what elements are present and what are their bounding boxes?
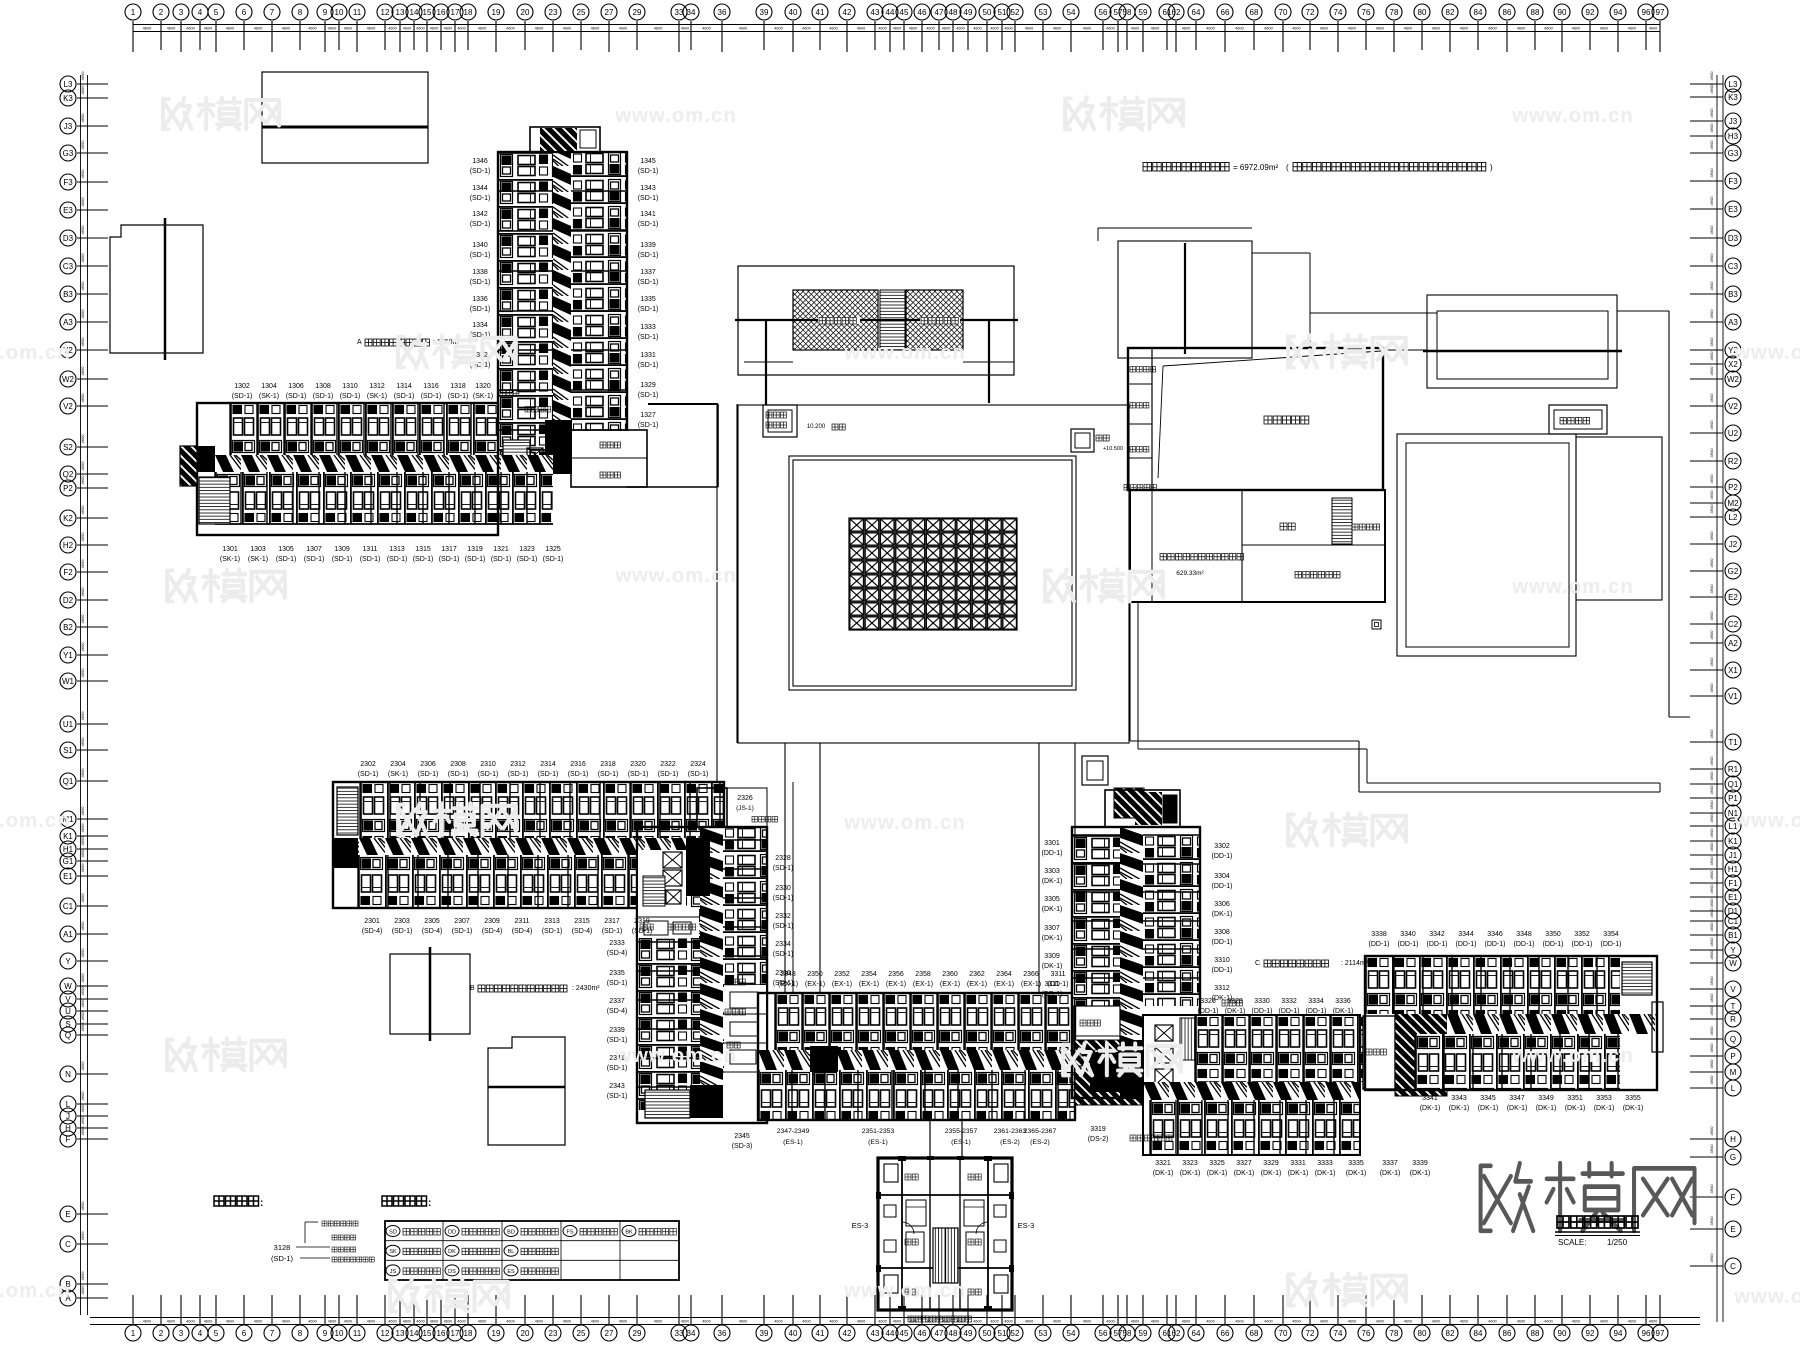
svg-text:2326: 2326 xyxy=(737,795,753,802)
svg-text:44: 44 xyxy=(886,1329,895,1338)
svg-text:3329: 3329 xyxy=(1263,1160,1279,1167)
svg-text:R2: R2 xyxy=(1728,457,1739,466)
svg-text:90: 90 xyxy=(1558,8,1567,17)
central bottom slab room labels 2347-2367 xyxy=(777,971,1069,1146)
svg-text:9: 9 xyxy=(323,1329,328,1338)
svg-text:3342: 3342 xyxy=(1429,931,1445,938)
svg-text:Q1: Q1 xyxy=(1728,780,1739,789)
svg-text:2334: 2334 xyxy=(775,941,791,948)
svg-text:2358: 2358 xyxy=(915,971,931,978)
svg-text:(SD-1): (SD-1) xyxy=(478,771,499,778)
svg-text:2356: 2356 xyxy=(888,971,904,978)
svg-text:92: 92 xyxy=(1586,1329,1595,1338)
svg-text:A2: A2 xyxy=(1728,639,1738,648)
svg-text:B: B xyxy=(470,985,475,992)
svg-text:(DK-1): (DK-1) xyxy=(1234,1170,1255,1177)
svg-text:H: H xyxy=(1730,1135,1736,1144)
svg-text:2362: 2362 xyxy=(969,971,985,978)
wing C room number labels 3301-3355 and area note xyxy=(1042,840,1644,1177)
svg-text:10.200: 10.200 xyxy=(807,424,826,430)
svg-text:62: 62 xyxy=(1172,8,1181,17)
svg-text:4600: 4600 xyxy=(1709,922,1714,932)
svg-text:3319: 3319 xyxy=(1090,1126,1106,1133)
svg-text:4600: 4600 xyxy=(857,1320,865,1324)
svg-text:4600: 4600 xyxy=(1709,908,1714,918)
svg-text:84: 84 xyxy=(1474,1329,1483,1338)
svg-text:1335: 1335 xyxy=(640,296,656,303)
svg-text:(SD-1): (SD-1) xyxy=(465,556,486,563)
svg-text:www.om.cn: www.om.cn xyxy=(1733,1286,1800,1308)
svg-text:(SD-4): (SD-4) xyxy=(512,928,533,935)
svg-text:(ES-1): (ES-1) xyxy=(868,1139,888,1146)
svg-text:S1: S1 xyxy=(63,746,73,755)
svg-text:1331: 1331 xyxy=(640,352,656,359)
svg-text:4600: 4600 xyxy=(1709,1144,1714,1154)
svg-text:2: 2 xyxy=(159,1329,164,1338)
svg-text:(SD-4): (SD-4) xyxy=(482,928,503,935)
svg-text:68: 68 xyxy=(1250,1329,1259,1338)
svg-text:2305: 2305 xyxy=(424,918,440,925)
svg-text:1309: 1309 xyxy=(334,546,350,553)
svg-text:4600: 4600 xyxy=(1709,1216,1714,1226)
svg-text:4600: 4600 xyxy=(1106,27,1114,31)
svg-text:4600: 4600 xyxy=(80,225,85,235)
svg-text:(SD-1): (SD-1) xyxy=(638,392,659,399)
svg-text:D3: D3 xyxy=(1728,234,1739,243)
detail boxes: four empty reference rectangles left side xyxy=(110,72,565,1145)
svg-text:4600: 4600 xyxy=(1709,611,1714,621)
svg-text:4600: 4600 xyxy=(80,1011,85,1021)
svg-text:Y1: Y1 xyxy=(63,651,73,660)
svg-text:59: 59 xyxy=(1139,8,1148,17)
svg-text:1: 1 xyxy=(131,8,136,17)
svg-text:4600: 4600 xyxy=(80,986,85,996)
svg-text:4600: 4600 xyxy=(80,948,85,958)
svg-text:(SD-1): (SD-1) xyxy=(568,771,589,778)
svg-text:97: 97 xyxy=(1656,1329,1665,1338)
svg-text:(SD-1): (SD-1) xyxy=(439,556,460,563)
svg-text:2330: 2330 xyxy=(775,885,791,892)
svg-text:4600: 4600 xyxy=(1131,1320,1139,1324)
svg-text:13: 13 xyxy=(396,1329,405,1338)
svg-text:1311: 1311 xyxy=(362,546,377,553)
svg-text:74: 74 xyxy=(1334,8,1343,17)
svg-text:3: 3 xyxy=(179,1329,184,1338)
svg-text:(SD-4): (SD-4) xyxy=(607,1008,628,1015)
svg-text:(DD-1): (DD-1) xyxy=(1212,939,1233,946)
svg-text:(DK-1): (DK-1) xyxy=(1507,1105,1528,1112)
svg-text:(SD-1): (SD-1) xyxy=(628,771,649,778)
svg-text:4600: 4600 xyxy=(829,1320,837,1324)
svg-text:4600: 4600 xyxy=(909,27,917,31)
svg-text:44: 44 xyxy=(886,8,895,17)
svg-text:2352: 2352 xyxy=(834,971,850,978)
svg-text:H3: H3 xyxy=(1728,132,1739,141)
svg-text:(SD-1): (SD-1) xyxy=(598,771,619,778)
svg-text:2311: 2311 xyxy=(514,918,529,925)
svg-text:2312: 2312 xyxy=(510,761,526,768)
svg-text:4600: 4600 xyxy=(990,1320,998,1324)
svg-text:94: 94 xyxy=(1614,1329,1623,1338)
svg-text:80: 80 xyxy=(1418,8,1427,17)
svg-text:64: 64 xyxy=(1192,8,1201,17)
svg-text:4600: 4600 xyxy=(80,1091,85,1101)
svg-text:56: 56 xyxy=(1099,1329,1108,1338)
svg-text:4600: 4600 xyxy=(1709,630,1714,640)
svg-text:4600: 4600 xyxy=(774,1320,782,1324)
svg-text:4600: 4600 xyxy=(226,1320,234,1324)
svg-text:SK: SK xyxy=(389,1249,397,1255)
svg-text:78: 78 xyxy=(1390,1329,1399,1338)
svg-text:4600: 4600 xyxy=(956,27,964,31)
svg-text:4600: 4600 xyxy=(1544,27,1552,31)
svg-text:4600: 4600 xyxy=(80,532,85,542)
svg-text:P2: P2 xyxy=(63,484,73,493)
svg-text:4600: 4600 xyxy=(80,1231,85,1241)
svg-text:4600: 4600 xyxy=(1709,393,1714,403)
svg-text:4600: 4600 xyxy=(1709,813,1714,823)
svg-text:4600: 4600 xyxy=(457,27,465,31)
svg-text:4600: 4600 xyxy=(1709,337,1714,347)
svg-text:4600: 4600 xyxy=(80,1126,85,1136)
svg-text:4600: 4600 xyxy=(702,1320,710,1324)
svg-text:3309: 3309 xyxy=(1044,953,1060,960)
svg-text:4600: 4600 xyxy=(80,169,85,179)
svg-text:(DD-1): (DD-1) xyxy=(1306,1008,1327,1015)
svg-text:6: 6 xyxy=(242,8,247,17)
svg-text:F: F xyxy=(66,1135,71,1144)
svg-text:Q2: Q2 xyxy=(63,470,74,479)
svg-text:= 6972.09m²: = 6972.09m² xyxy=(1233,163,1278,172)
svg-text:4600: 4600 xyxy=(1649,27,1657,31)
svg-text:4600: 4600 xyxy=(942,27,950,31)
svg-text:www.om.cn: www.om.cn xyxy=(614,565,737,587)
svg-text:ES-3: ES-3 xyxy=(1018,1221,1035,1230)
svg-text:(SD-1): (SD-1) xyxy=(638,279,659,286)
svg-text:Q1: Q1 xyxy=(63,777,74,786)
svg-text:(SD-1): (SD-1) xyxy=(542,928,563,935)
svg-text:29: 29 xyxy=(633,1329,642,1338)
svg-text:43: 43 xyxy=(871,1329,880,1338)
svg-text:25: 25 xyxy=(577,1329,586,1338)
svg-text:Y: Y xyxy=(1730,946,1736,955)
svg-text:DK: DK xyxy=(448,1249,456,1255)
svg-text:4600: 4600 xyxy=(1709,1059,1714,1069)
svg-text:4600: 4600 xyxy=(681,27,689,31)
svg-text::: : xyxy=(260,1198,263,1209)
svg-text:4600: 4600 xyxy=(478,1320,486,1324)
svg-text:www.om.cn: www.om.cn xyxy=(0,810,71,832)
svg-text:4600: 4600 xyxy=(973,1320,981,1324)
svg-text:F3: F3 xyxy=(1728,177,1738,186)
svg-text:Y: Y xyxy=(65,957,71,966)
svg-text:58: 58 xyxy=(1123,8,1132,17)
svg-text:B3: B3 xyxy=(63,290,73,299)
svg-text:(DK-1): (DK-1) xyxy=(1261,1170,1282,1177)
svg-text:4600: 4600 xyxy=(1709,309,1714,319)
svg-text:(SD-1): (SD-1) xyxy=(394,393,415,400)
svg-text:A3: A3 xyxy=(1728,318,1738,327)
svg-text:4600: 4600 xyxy=(430,1320,438,1324)
svg-text:2301: 2301 xyxy=(364,918,380,925)
svg-text:(SD-1): (SD-1) xyxy=(638,306,659,313)
svg-text:39: 39 xyxy=(760,8,769,17)
svg-text:1346: 1346 xyxy=(472,158,488,165)
svg-text:(DD-1): (DD-1) xyxy=(1485,941,1506,948)
svg-text:45: 45 xyxy=(900,1329,909,1338)
svg-text:4600: 4600 xyxy=(1709,196,1714,206)
svg-text:www.om.cn: www.om.cn xyxy=(843,342,966,364)
svg-text:4600: 4600 xyxy=(143,27,151,31)
svg-text:(SD-1): (SD-1) xyxy=(470,252,491,259)
svg-text:4600: 4600 xyxy=(1004,1320,1012,1324)
svg-text:M: M xyxy=(1730,1068,1737,1077)
svg-text:11: 11 xyxy=(353,8,362,17)
svg-text:4600: 4600 xyxy=(254,1320,262,1324)
svg-text:48: 48 xyxy=(949,1329,958,1338)
svg-text:3308: 3308 xyxy=(1214,929,1230,936)
svg-text:M2: M2 xyxy=(1727,499,1739,508)
svg-text:3333: 3333 xyxy=(1317,1160,1333,1167)
svg-text:B1: B1 xyxy=(1728,931,1738,940)
svg-text:7: 7 xyxy=(270,8,275,17)
svg-text:1344: 1344 xyxy=(472,185,488,192)
svg-text:C1: C1 xyxy=(1728,917,1739,926)
svg-text:4600: 4600 xyxy=(1709,140,1714,150)
svg-text:4600: 4600 xyxy=(893,27,901,31)
svg-text:3330: 3330 xyxy=(1254,998,1270,1005)
svg-text:3337: 3337 xyxy=(1382,1160,1398,1167)
svg-text:(SD-1): (SD-1) xyxy=(448,771,469,778)
svg-text:4600: 4600 xyxy=(1432,1320,1440,1324)
svg-text:1319: 1319 xyxy=(467,546,483,553)
svg-text:4600: 4600 xyxy=(80,893,85,903)
svg-text:P1: P1 xyxy=(1728,794,1738,803)
svg-text:4600: 4600 xyxy=(416,1320,424,1324)
svg-text:4600: 4600 xyxy=(416,27,424,31)
svg-text:2355-2357: 2355-2357 xyxy=(945,1128,978,1135)
svg-text:1314: 1314 xyxy=(396,383,412,390)
svg-text:4600: 4600 xyxy=(1488,27,1496,31)
svg-text:4600: 4600 xyxy=(1151,27,1159,31)
svg-text:3311: 3311 xyxy=(1050,971,1065,978)
svg-text:www.om.cn: www.om.cn xyxy=(0,342,71,364)
svg-text:(SD-1): (SD-1) xyxy=(638,334,659,341)
svg-text:4600: 4600 xyxy=(591,1320,599,1324)
svg-text:4600: 4600 xyxy=(1709,828,1714,838)
svg-text:(SD-1): (SD-1) xyxy=(470,306,491,313)
svg-text:(DK-1): (DK-1) xyxy=(1153,1170,1174,1177)
svg-text:3323: 3323 xyxy=(1182,1160,1198,1167)
svg-text:J3: J3 xyxy=(64,122,73,131)
svg-text:4600: 4600 xyxy=(80,863,85,873)
svg-text:4600: 4600 xyxy=(1709,474,1714,484)
svg-text:3349: 3349 xyxy=(1538,1095,1554,1102)
svg-text:3340: 3340 xyxy=(1400,931,1416,938)
svg-text:2339: 2339 xyxy=(609,1027,625,1034)
svg-text:2324: 2324 xyxy=(690,761,706,768)
svg-text:(SD-1): (SD-1) xyxy=(607,1093,628,1100)
svg-text:2: 2 xyxy=(159,8,164,17)
svg-text:4600: 4600 xyxy=(1235,1320,1243,1324)
svg-text:www.om.cn: www.om.cn xyxy=(843,1280,966,1302)
svg-text:3335: 3335 xyxy=(1348,1160,1364,1167)
svg-text:V2: V2 xyxy=(63,402,73,411)
svg-text:: 2430m²: : 2430m² xyxy=(572,985,600,992)
svg-text:K3: K3 xyxy=(63,94,73,103)
svg-text:15: 15 xyxy=(423,1329,432,1338)
svg-text:www.om.cn: www.om.cn xyxy=(614,105,737,127)
svg-text:(SD-1): (SD-1) xyxy=(638,221,659,228)
svg-text:4600: 4600 xyxy=(654,1320,662,1324)
svg-text:82: 82 xyxy=(1446,8,1455,17)
svg-text:(SD-1): (SD-1) xyxy=(773,865,794,872)
svg-text:(SD-1): (SD-1) xyxy=(543,556,564,563)
svg-text:4600: 4600 xyxy=(802,1320,810,1324)
svg-text:(SD-1): (SD-1) xyxy=(421,393,442,400)
annotation: total floor area 6972.09 sqm note xyxy=(1143,163,1493,173)
svg-text:(DK-1): (DK-1) xyxy=(1333,1008,1354,1015)
svg-text:3327: 3327 xyxy=(1236,1160,1252,1167)
svg-text:(SD-1): (SD-1) xyxy=(340,393,361,400)
svg-text:4600: 4600 xyxy=(878,27,886,31)
svg-text:4600: 4600 xyxy=(167,1320,175,1324)
svg-text:4600: 4600 xyxy=(1709,937,1714,947)
svg-text:4600: 4600 xyxy=(774,27,782,31)
svg-text:(SD-1): (SD-1) xyxy=(304,556,325,563)
svg-text:4600: 4600 xyxy=(1709,504,1714,514)
svg-text:4600: 4600 xyxy=(1600,27,1608,31)
svg-text:(: ( xyxy=(1286,163,1289,172)
svg-text:29: 29 xyxy=(633,8,642,17)
svg-text:www.om.cn: www.om.cn xyxy=(1511,105,1634,127)
svg-text:E3: E3 xyxy=(63,206,73,215)
svg-text:4600: 4600 xyxy=(80,309,85,319)
svg-text:4600: 4600 xyxy=(80,1201,85,1211)
svg-text:4600: 4600 xyxy=(926,27,934,31)
svg-text:(EX-1): (EX-1) xyxy=(967,981,987,988)
svg-text:4600: 4600 xyxy=(1709,1184,1714,1194)
svg-text:4600: 4600 xyxy=(619,27,627,31)
svg-text:(SK-1): (SK-1) xyxy=(248,556,268,563)
svg-text:629.33m²: 629.33m² xyxy=(1176,570,1204,577)
svg-text:(SD-4): (SD-4) xyxy=(607,950,628,957)
svg-text:www.om.cn: www.om.cn xyxy=(1733,342,1800,364)
svg-text:3355: 3355 xyxy=(1625,1095,1641,1102)
svg-text:4600: 4600 xyxy=(1709,351,1714,361)
svg-text:88: 88 xyxy=(1531,1329,1540,1338)
svg-text:14: 14 xyxy=(410,8,419,17)
svg-text:(SD-1): (SD-1) xyxy=(508,771,529,778)
svg-text:4: 4 xyxy=(198,8,203,17)
svg-text:U: U xyxy=(65,1007,71,1016)
svg-text:1301: 1301 xyxy=(222,546,238,553)
svg-text:4600: 4600 xyxy=(80,140,85,150)
svg-text:4600: 4600 xyxy=(563,27,571,31)
svg-text:1315: 1315 xyxy=(415,546,431,553)
svg-text:(SD-4): (SD-4) xyxy=(422,928,443,935)
svg-text:BK: BK xyxy=(625,1230,633,1236)
svg-text:1307: 1307 xyxy=(306,546,322,553)
svg-text:P: P xyxy=(1730,1052,1735,1061)
svg-text:4600: 4600 xyxy=(1709,281,1714,291)
svg-text:(EX-1): (EX-1) xyxy=(913,981,933,988)
svg-text:64: 64 xyxy=(1192,1329,1201,1338)
svg-text:23: 23 xyxy=(549,1329,558,1338)
svg-text:4600: 4600 xyxy=(1376,1320,1384,1324)
svg-text:4600: 4600 xyxy=(282,1320,290,1324)
svg-text:4600: 4600 xyxy=(1709,71,1714,81)
svg-text:3303: 3303 xyxy=(1044,868,1060,875)
svg-text:(SD-1): (SD-1) xyxy=(452,928,473,935)
svg-text:C2: C2 xyxy=(1728,620,1739,629)
svg-text:K1: K1 xyxy=(1728,837,1738,846)
svg-text:4600: 4600 xyxy=(344,27,352,31)
svg-text:H1: H1 xyxy=(1728,865,1739,874)
svg-text:5: 5 xyxy=(214,8,219,17)
svg-text:2319: 2319 xyxy=(634,918,650,925)
svg-text:4600: 4600 xyxy=(204,1320,212,1324)
svg-text:1325: 1325 xyxy=(545,546,561,553)
wing C: vertical slab, central-right slab and far-right slab with corridors, stairs, cores xyxy=(1072,790,1663,1155)
svg-text:52: 52 xyxy=(1011,1329,1020,1338)
svg-text:49: 49 xyxy=(964,1329,973,1338)
svg-text:DS: DS xyxy=(448,1269,456,1275)
svg-text:4600: 4600 xyxy=(80,973,85,983)
svg-text:4600: 4600 xyxy=(80,1285,85,1295)
svg-text:1333: 1333 xyxy=(640,324,656,331)
svg-text:FS: FS xyxy=(566,1230,573,1236)
svg-text:1336: 1336 xyxy=(472,296,488,303)
svg-text:70: 70 xyxy=(1279,8,1288,17)
svg-text:(SD-1): (SD-1) xyxy=(448,393,469,400)
svg-text:4600: 4600 xyxy=(80,461,85,471)
svg-text:18: 18 xyxy=(464,1329,473,1338)
svg-text:3305: 3305 xyxy=(1044,896,1060,903)
svg-text:3341: 3341 xyxy=(1422,1095,1438,1102)
svg-text:C: C xyxy=(1730,1262,1736,1271)
svg-text:2347-2349: 2347-2349 xyxy=(777,1128,810,1135)
svg-text:(SK-1): (SK-1) xyxy=(259,393,279,400)
svg-text:4600: 4600 xyxy=(829,27,837,31)
svg-text:T1: T1 xyxy=(1728,738,1738,747)
svg-text:3336: 3336 xyxy=(1335,998,1351,1005)
svg-text:(ES-2): (ES-2) xyxy=(1030,1139,1050,1146)
svg-text:19: 19 xyxy=(492,1329,501,1338)
svg-text:R1: R1 xyxy=(1728,765,1739,774)
svg-text:E1: E1 xyxy=(63,872,73,881)
svg-text:4600: 4600 xyxy=(430,27,438,31)
svg-text:4600: 4600 xyxy=(80,337,85,347)
svg-text:3350: 3350 xyxy=(1545,931,1561,938)
svg-text:4600: 4600 xyxy=(956,1320,964,1324)
svg-text:+10.500: +10.500 xyxy=(1103,446,1123,452)
svg-text:4600: 4600 xyxy=(1206,1320,1214,1324)
svg-text:88: 88 xyxy=(1531,8,1540,17)
svg-text:78: 78 xyxy=(1390,8,1399,17)
svg-text:17: 17 xyxy=(451,8,460,17)
svg-text:2308: 2308 xyxy=(450,761,466,768)
svg-text:8: 8 xyxy=(298,1329,303,1338)
svg-text:4600: 4600 xyxy=(1709,366,1714,376)
svg-text:1303: 1303 xyxy=(250,546,266,553)
svg-text:4600: 4600 xyxy=(1235,27,1243,31)
svg-text:4600: 4600 xyxy=(367,1320,375,1324)
svg-text:4600: 4600 xyxy=(80,848,85,858)
svg-text:(SD-1): (SD-1) xyxy=(773,895,794,902)
svg-text:4600: 4600 xyxy=(1182,1320,1190,1324)
svg-text:A1: A1 xyxy=(63,930,73,939)
